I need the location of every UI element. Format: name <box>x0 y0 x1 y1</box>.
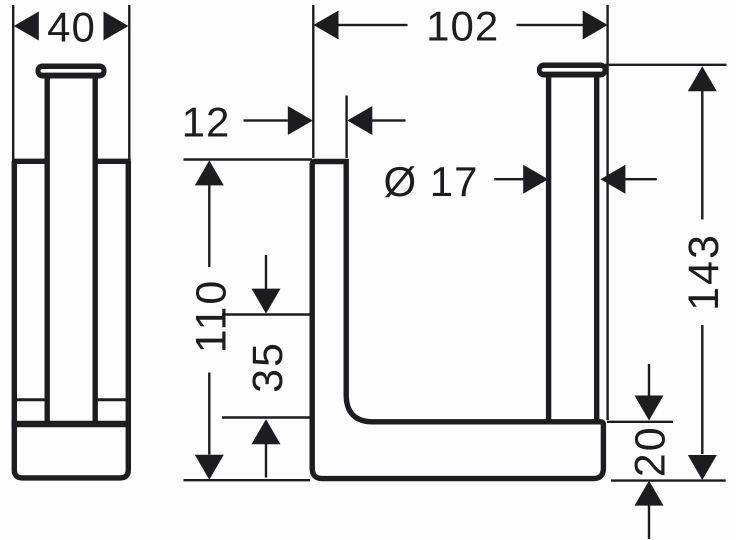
dimension 40 left arrow <box>14 12 39 41</box>
dimension 20 bottom arrow <box>635 481 664 506</box>
left view rod left edge <box>45 77 50 423</box>
dimension 12 right arrow <box>347 106 372 135</box>
dimension 110 top arrow <box>195 160 224 185</box>
extension line bracket left outer (102/12) <box>312 5 314 158</box>
svg-text:12: 12 <box>182 99 231 146</box>
extension line bracket right end (102) <box>606 5 608 420</box>
dimension 143 top line <box>701 91 703 220</box>
dimension 35 label <box>244 341 292 393</box>
dimension 110 label <box>187 279 235 354</box>
dimension 110 bottom arrow <box>195 455 224 480</box>
dimension 20 label <box>627 425 675 477</box>
left view housing top left segment <box>12 159 49 164</box>
dimension 40 right arrow <box>104 12 129 41</box>
left view slot bottom right line <box>98 398 127 401</box>
dimension 102 right line <box>517 24 584 26</box>
dimension 35 top tail <box>265 255 267 290</box>
dimension 102 left line <box>338 24 408 26</box>
extension line hole level (35 top) <box>222 313 310 315</box>
extension line bottom right (20/143 bottom) <box>611 479 726 481</box>
extension line bottom left (110 bottom) <box>184 479 311 481</box>
dimension Ø17 right line <box>625 178 657 180</box>
left view housing outline <box>14 161 128 478</box>
dimension Ø17 left-pointing arrow <box>600 165 625 194</box>
right view bracket L-shape <box>312 162 603 479</box>
left view slot bottom left line <box>16 398 45 401</box>
right view rod left edge <box>546 76 551 420</box>
dimension 35 bottom arrow <box>252 419 281 444</box>
svg-text:20: 20 <box>627 425 675 477</box>
dimension Ø17 right-pointing arrow <box>523 165 548 194</box>
left view cap <box>36 64 107 79</box>
dimension 12 left arrow <box>288 106 313 135</box>
extension line 12 right <box>345 96 347 159</box>
dimension 20 top tail <box>648 364 650 397</box>
left view base top line <box>12 421 131 428</box>
svg-text:Ø 17: Ø 17 <box>383 158 478 205</box>
dimension 102 left arrow <box>314 11 339 40</box>
dimension 35 top arrow <box>252 289 281 314</box>
svg-text:40: 40 <box>47 4 96 51</box>
dimension 143 bottom line <box>701 325 703 454</box>
left view cap slot <box>41 69 102 73</box>
dimension 143 top arrow <box>688 66 717 91</box>
svg-text:102: 102 <box>426 3 499 50</box>
dimension 20 top arrow <box>635 396 664 421</box>
dimension 143 bottom arrow <box>688 455 717 480</box>
dimension 12 left line <box>244 119 289 121</box>
dimension 110 bottom line <box>208 373 210 455</box>
extension line arm top right (20 top) <box>607 421 673 423</box>
dimension 110 top line <box>208 185 210 267</box>
dimension Ø17 left line <box>494 178 524 180</box>
left view housing top right segment <box>94 159 131 164</box>
right view cap <box>537 63 608 78</box>
extension line left view left (40) <box>12 5 14 159</box>
svg-text:143: 143 <box>680 233 728 311</box>
extension line arm top left (35 bottom) <box>222 416 310 418</box>
right view rod right edge <box>594 76 599 420</box>
extension line left view right (40) <box>128 5 130 159</box>
svg-text:110: 110 <box>187 279 235 354</box>
dimension 143 label <box>680 233 728 311</box>
dimension 102 right arrow <box>583 11 608 40</box>
extension line bracket top left (110) <box>184 158 313 160</box>
extension line cap top right (143 top) <box>605 64 727 66</box>
left view rod right edge <box>92 77 97 423</box>
dimension 35 bottom tail <box>265 444 267 478</box>
svg-text:35: 35 <box>244 341 292 393</box>
dimension 12 right line <box>372 119 406 121</box>
dimension 20 bottom tail <box>648 505 650 539</box>
right view cap slot <box>542 68 603 72</box>
